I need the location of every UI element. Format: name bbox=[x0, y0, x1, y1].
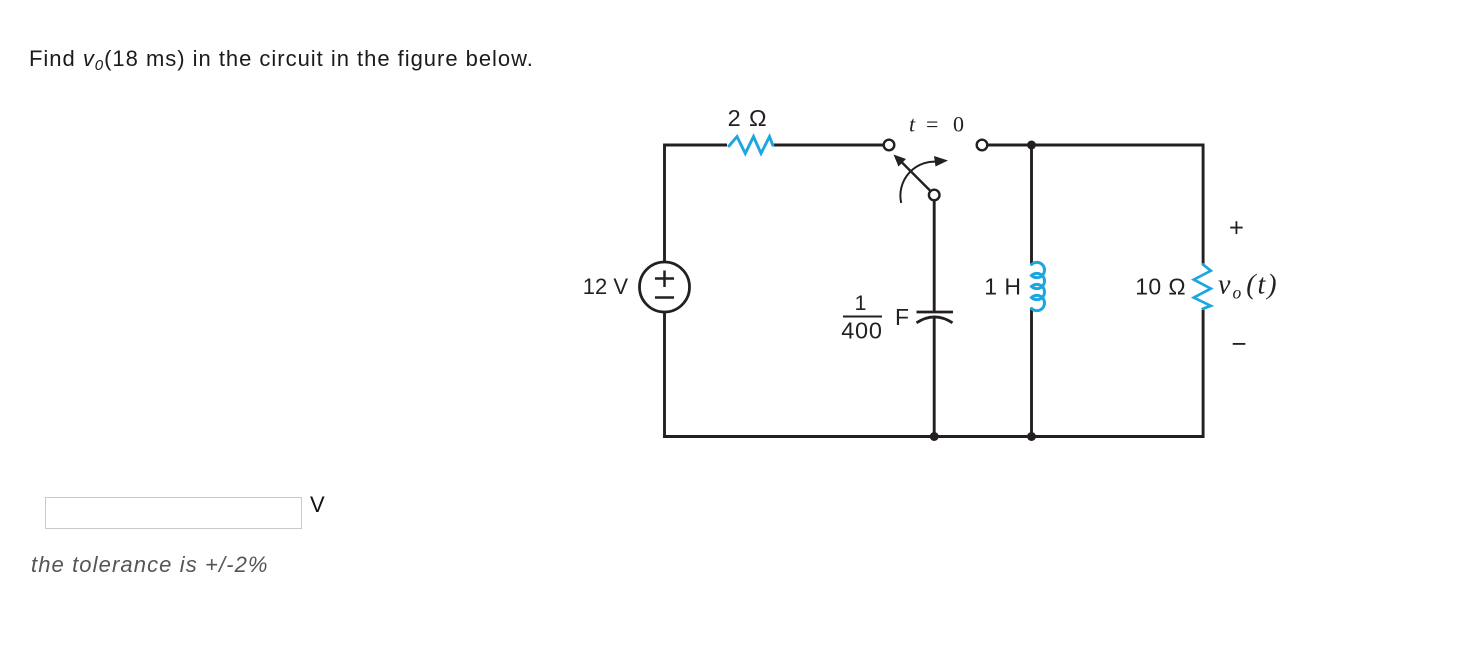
junction dot bottom inductor bbox=[1027, 432, 1036, 441]
question text bbox=[29, 46, 534, 72]
svg-text:+: + bbox=[1229, 215, 1244, 243]
svg-text:t=0: t=0 bbox=[909, 112, 964, 137]
svg-text:1: 1 bbox=[855, 291, 867, 315]
junction dot top (inductor tap) bbox=[1027, 141, 1036, 150]
tolerance note bbox=[31, 552, 269, 578]
wire: capacitor branch lower bbox=[933, 318, 936, 437]
wire: capacitor branch upper bbox=[933, 201, 936, 312]
junction dot bottom capacitor bbox=[930, 432, 939, 441]
wire: switch right terminal to top-right corner bbox=[988, 144, 1205, 147]
svg-text:F: F bbox=[895, 304, 909, 330]
answer input box bbox=[45, 497, 302, 529]
svg-text:1 H: 1 H bbox=[984, 274, 1021, 300]
switch motion arc arrowhead bbox=[934, 156, 948, 167]
svg-text:400: 400 bbox=[841, 318, 883, 344]
wire: left vertical (source branch) bbox=[663, 145, 666, 262]
svg-text:12 V: 12 V bbox=[583, 274, 629, 299]
wire: left vertical lower bbox=[663, 312, 666, 438]
wire: top left segment to resistor bbox=[663, 144, 727, 147]
svg-text:vo(t): vo(t) bbox=[1218, 270, 1279, 303]
wire: resistor to switch left terminal bbox=[773, 144, 883, 147]
capacitor C1 curved bottom plate bbox=[917, 317, 953, 323]
inductor L1 coil bbox=[1032, 262, 1045, 310]
switch motion arc bbox=[900, 162, 939, 203]
switch left terminal bbox=[884, 140, 895, 151]
svg-text:−: − bbox=[1231, 329, 1246, 359]
wire: bottom rail bbox=[663, 435, 1204, 438]
voltage source plus sign bbox=[655, 271, 674, 288]
switch right terminal bbox=[977, 140, 988, 151]
label V unit bbox=[310, 492, 325, 518]
switch blade arrowhead bbox=[894, 155, 907, 167]
fraction bar bbox=[843, 316, 882, 318]
svg-text:10 Ω: 10 Ω bbox=[1135, 274, 1186, 300]
wire: inductor branch upper bbox=[1030, 145, 1033, 265]
switch bottom terminal bbox=[929, 190, 940, 201]
wire: right vertical lower bbox=[1202, 308, 1205, 438]
switch blade bbox=[901, 162, 931, 192]
resistor R2 10-ohm zigzag bbox=[1194, 264, 1211, 309]
resistor R1 2-ohm zigzag bbox=[729, 137, 773, 154]
capacitor C1 top plate bbox=[917, 311, 954, 314]
wire: inductor branch lower bbox=[1030, 309, 1033, 437]
voltage source minus sign bbox=[655, 296, 674, 299]
voltage source V1 circle bbox=[640, 262, 690, 312]
svg-text:2 Ω: 2 Ω bbox=[728, 105, 768, 131]
wire: right vertical upper bbox=[1202, 145, 1205, 265]
